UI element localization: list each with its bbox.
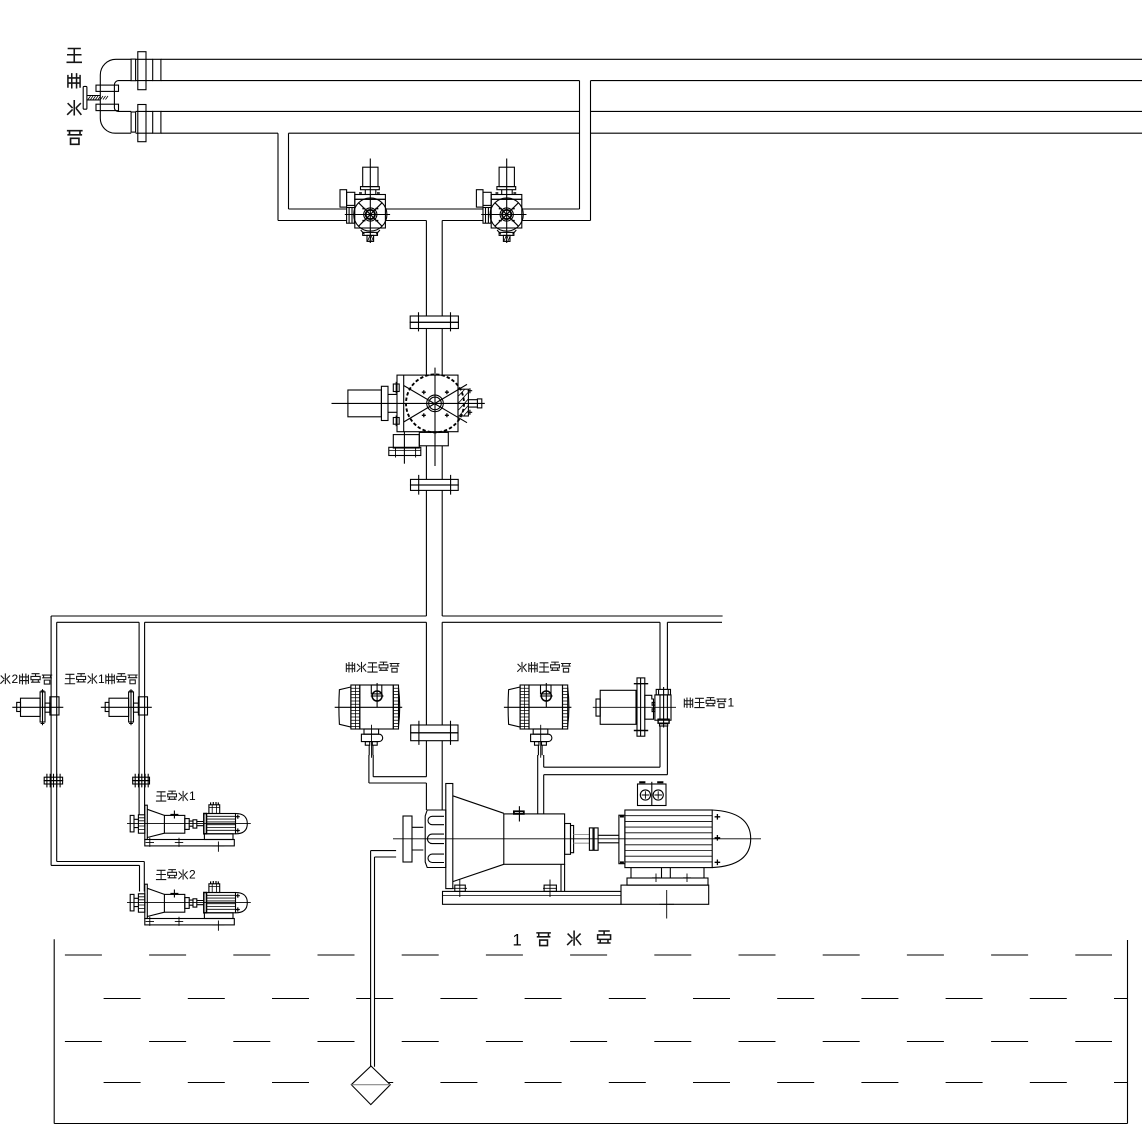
svg-text:1: 1 — [189, 789, 196, 803]
svg-text:1: 1 — [98, 672, 105, 686]
svg-text:1: 1 — [513, 932, 522, 950]
svg-text:2: 2 — [12, 672, 19, 686]
svg-text:2: 2 — [189, 868, 196, 882]
svg-text:1: 1 — [728, 696, 735, 710]
